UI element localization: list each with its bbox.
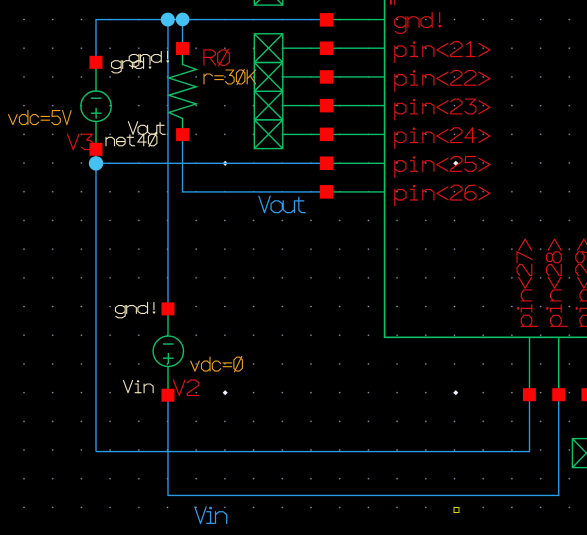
label Vin net <box>195 507 227 523</box>
label pin<28> vertical <box>546 239 567 326</box>
marker yellow square <box>454 508 459 513</box>
label pin<25> chip pin <box>395 157 490 178</box>
pin square V3 bottom <box>90 143 103 156</box>
vdc source V2 <box>153 309 183 395</box>
wire: V3 bottom to net40 junction and down <box>95 149 97 451</box>
chip pin square 28 <box>552 388 565 401</box>
coarse grid marker (225,163) <box>223 161 228 166</box>
vdc source V3 <box>81 62 111 149</box>
wire: V2 bottom down then right to pin28 <box>168 395 559 496</box>
chip pin square gnd <box>320 13 334 27</box>
label pin<20> clipped <box>395 0 490 5</box>
wire: R0 bottom down then right to chip pin26 <box>183 135 327 192</box>
label pin<22> chip pin <box>395 70 490 91</box>
chip pin stub gnd row <box>333 19 385 21</box>
junction dot at (167.9,19.6) <box>161 13 175 27</box>
chip pin square 25 <box>320 157 334 171</box>
pad box row21 <box>254 34 282 63</box>
wire: top horizontal net gnd from V3 to chip gnd pin <box>96 20 327 62</box>
label gnd! net B <box>129 51 168 66</box>
pad-to-chip nets rows 21-24 <box>283 47 385 49</box>
wire: short drop to R0 top pin <box>182 20 184 49</box>
pin square V2 top <box>162 302 175 315</box>
label gnd! net A <box>112 58 151 73</box>
label Vout inst pin <box>128 122 165 135</box>
label vdc=5V <box>9 111 72 125</box>
junction dot at (96,163.4) <box>89 156 103 170</box>
chip pin square 27 <box>523 388 536 401</box>
chip bottom pin stubs 27,28 <box>529 337 531 394</box>
pad box bottom right partial <box>572 439 587 468</box>
chip pin square 26 <box>320 185 334 199</box>
coarse grid marker (454,163) <box>453 161 458 166</box>
label V2 <box>173 380 198 395</box>
pad box row24 <box>254 120 282 149</box>
label Vout net <box>259 196 305 212</box>
pad box row22 <box>254 63 282 92</box>
clipped label fragment top <box>390 0 392 5</box>
label r=30K <box>204 69 256 84</box>
label vdc=0 <box>191 357 243 372</box>
label pin<29> vertical <box>576 239 587 326</box>
junction dot at (182.6,19.6) <box>176 13 190 27</box>
pin square V3 top <box>90 56 103 69</box>
label net40 <box>106 133 157 146</box>
label gnd! chip pin <box>395 13 441 34</box>
label gnd! net V2 <box>116 302 155 317</box>
chip pin square 22 <box>320 70 334 84</box>
chip body edge (left + bottom) <box>385 0 587 337</box>
label pin<21> chip pin <box>395 42 490 63</box>
label Vin inst pin <box>124 381 154 393</box>
label R0 <box>204 49 229 66</box>
coarse grid marker (454,392.5) <box>453 390 458 395</box>
coarse grid marker (225,392.5) <box>223 390 228 395</box>
pad box row23 <box>254 91 282 120</box>
pin square R0 bottom <box>176 128 189 141</box>
chip pin square 24 <box>320 128 334 142</box>
chip pin square 23 <box>320 99 334 113</box>
wire: net40 horizontal to chip pin25 <box>96 162 327 164</box>
chip pin stubs rows 25,26 <box>333 162 385 164</box>
resistor R0 zigzag <box>169 49 197 135</box>
label V3 <box>67 134 92 149</box>
label pin<24> chip pin <box>395 128 490 149</box>
label pin<27> vertical <box>517 239 538 326</box>
pin square V2 bottom <box>162 389 175 402</box>
pad box stack (partial top box) <box>254 0 282 5</box>
label pin<26> chip pin <box>395 185 490 206</box>
pin square R0 top <box>176 42 189 55</box>
label pin<23> chip pin <box>395 99 490 120</box>
wire: vertical drop to V2 top <box>167 20 169 309</box>
chip pin square 29 (clipped) <box>582 388 587 401</box>
wire: long bottom horizontal Vin net to pin27 <box>96 395 530 452</box>
chip pin square 21 <box>320 42 334 56</box>
pin squares red <box>90 13 587 402</box>
